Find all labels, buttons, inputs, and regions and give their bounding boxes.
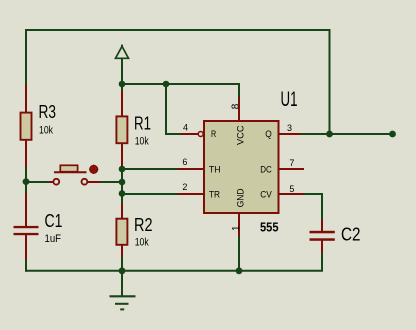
svg-text:10k: 10k	[135, 237, 149, 249]
svg-text:555: 555	[260, 219, 279, 234]
svg-text:U1: U1	[281, 88, 298, 111]
svg-text:1: 1	[231, 225, 242, 231]
svg-text:7: 7	[289, 158, 294, 168]
svg-text:C1: C1	[45, 211, 63, 231]
svg-text:R3: R3	[39, 102, 57, 122]
svg-text:10k: 10k	[135, 136, 149, 148]
svg-text:5: 5	[289, 184, 294, 194]
svg-text:CV: CV	[260, 189, 272, 200]
svg-text:TH: TH	[209, 164, 221, 175]
svg-text:R2: R2	[134, 215, 153, 235]
svg-text:8: 8	[231, 103, 242, 109]
svg-text:2: 2	[182, 182, 187, 192]
svg-text:1uF: 1uF	[45, 233, 62, 245]
svg-text:GND: GND	[236, 188, 247, 207]
svg-text:C2: C2	[341, 225, 361, 245]
svg-text:VCC: VCC	[236, 125, 247, 145]
svg-text:TR: TR	[209, 189, 220, 200]
svg-text:Q: Q	[265, 129, 272, 140]
svg-text:6: 6	[182, 157, 187, 167]
svg-text:4: 4	[183, 123, 188, 133]
svg-text:DC: DC	[260, 164, 272, 175]
svg-text:R: R	[211, 129, 216, 140]
svg-text:R1: R1	[134, 114, 151, 134]
svg-text:10k: 10k	[39, 125, 53, 137]
svg-text:3: 3	[287, 123, 292, 133]
